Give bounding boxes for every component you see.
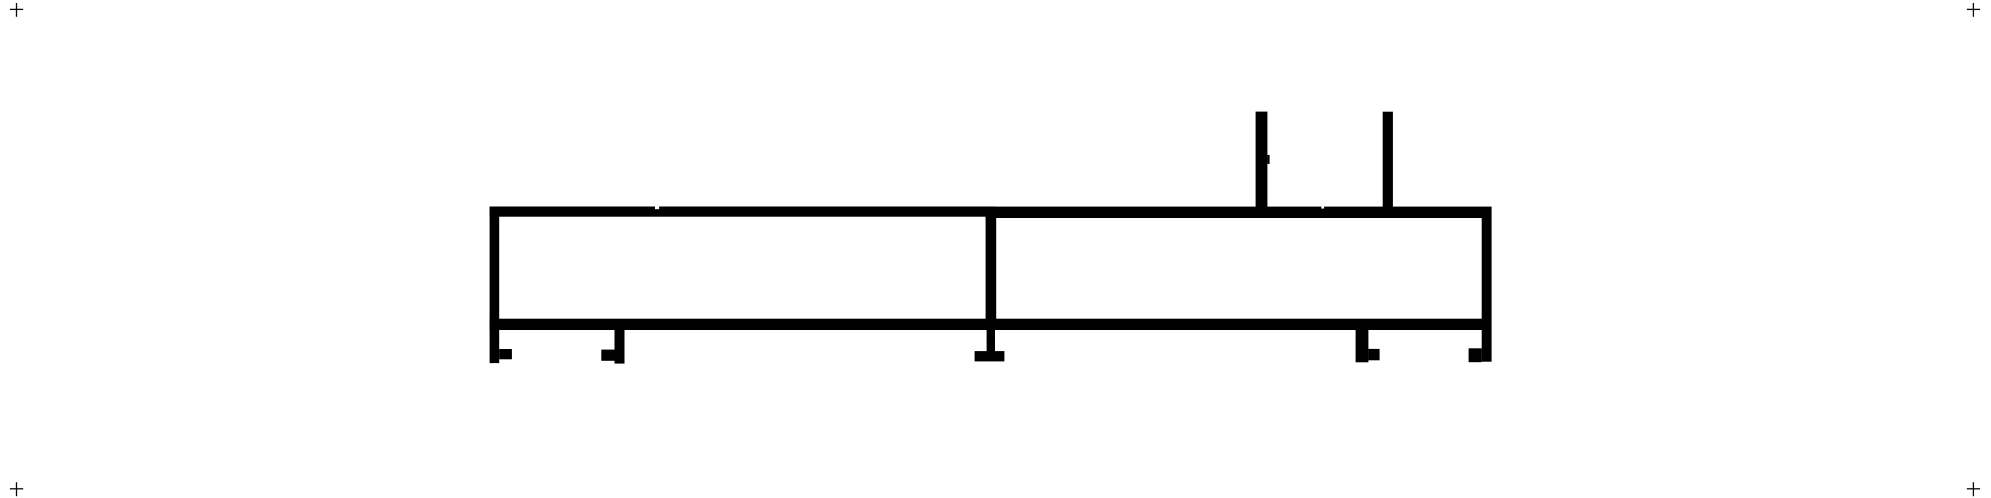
center foot stem [987, 325, 995, 353]
right wall [1482, 207, 1492, 362]
registration mark top-right [1967, 3, 1980, 17]
foot 4 bar [1356, 325, 1369, 362]
right prong [1383, 112, 1393, 208]
registration mark bottom-right [1967, 482, 1980, 496]
center T-foot crossbar [975, 351, 1005, 361]
left foot stub (points right) [499, 349, 512, 359]
registration mark bottom-left [10, 482, 23, 496]
foot 4 stub (points right) [1368, 349, 1379, 360]
white notch in top wall at x~657 [655, 205, 659, 209]
registration mark top-left [10, 3, 23, 17]
center divider web [986, 207, 997, 331]
left prong side nub [1267, 155, 1269, 164]
foot 2 stub (points left) [601, 350, 614, 361]
profile top wall left segment [490, 207, 986, 217]
left prong [1256, 112, 1268, 208]
left wall [490, 207, 500, 364]
right foot stub (points left) [1469, 348, 1482, 362]
white notch in top wall at x~1322 [1321, 205, 1324, 209]
profile top wall right segment [986, 207, 1492, 218]
profile bottom wall [490, 319, 1492, 330]
foot 2 bar [615, 325, 625, 364]
